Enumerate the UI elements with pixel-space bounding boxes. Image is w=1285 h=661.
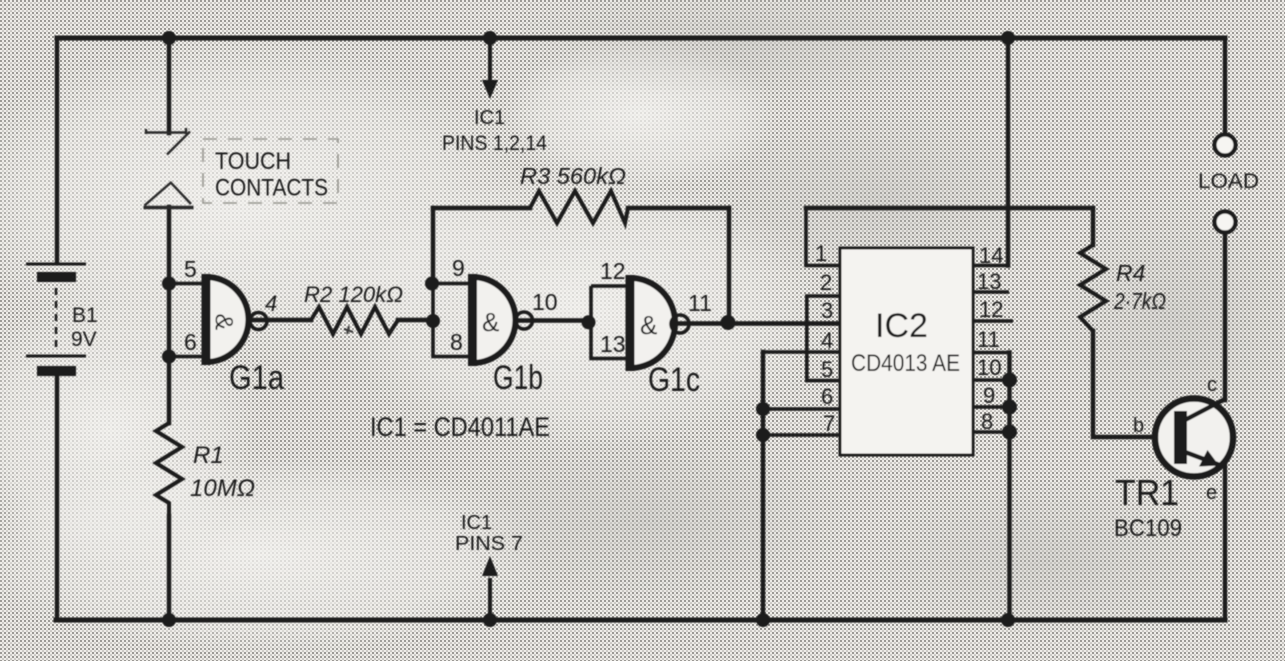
junction IC2 pin 7 / ground bus	[756, 428, 770, 442]
IC2 pin 7 stub	[763, 433, 840, 437]
label B1 9V	[71, 304, 98, 351]
label e	[1206, 482, 1217, 504]
wire load branch to TR1 collector	[1223, 232, 1227, 400]
label TOUCH CONTACTS with dashed box	[203, 139, 338, 203]
svg-text:PINS 7: PINS 7	[455, 533, 523, 555]
svg-text:G1c: G1c	[648, 361, 700, 399]
junction G1b pin 9 / R3	[425, 277, 439, 291]
svg-text:7: 7	[823, 411, 835, 436]
arrow IC1 pin 7 ground	[482, 556, 498, 616]
IC2 pin 9 stub	[973, 405, 1010, 409]
wire top rail to IC2 pin 14	[1006, 38, 1010, 266]
svg-text:R4: R4	[1116, 260, 1145, 286]
wire R4 bottom lead to TR1 base	[1093, 331, 1172, 437]
IC2 pin 4 stub	[763, 350, 840, 354]
terminal LOAD upper	[1215, 135, 1236, 156]
junction IC2 pin 9	[1002, 400, 1017, 415]
svg-text:G1a: G1a	[229, 359, 284, 397]
junction G1c inputs	[582, 315, 596, 329]
label IC2 pin numbers right	[977, 243, 1003, 434]
wire touch-contact branch from top rail	[167, 38, 171, 133]
wire R3 loop right vertical	[727, 208, 731, 322]
svg-text:9: 9	[452, 255, 465, 281]
svg-text:b: b	[1133, 415, 1144, 437]
IC2 pin 10 stub	[973, 378, 1010, 382]
label R4 2.7k	[1113, 260, 1166, 314]
svg-text:IC1 = CD4011AE: IC1 = CD4011AE	[370, 412, 550, 442]
svg-text:10: 10	[977, 355, 1001, 380]
IC2 pin 13 stub	[973, 290, 1009, 294]
battery B1	[26, 264, 86, 376]
label pin 8	[450, 329, 463, 355]
svg-text:CONTACTS: CONTACTS	[215, 175, 328, 202]
label c	[1207, 374, 1217, 396]
wire R3 loop top right segment	[628, 206, 729, 210]
svg-text:c: c	[1207, 374, 1217, 396]
junction ground rail / IC2 pins 8,9,10,11 bus	[1001, 613, 1015, 627]
wire G1b output to G1c input	[514, 318, 591, 322]
NAND gate G1a	[168, 274, 267, 365]
svg-text:BC109: BC109	[1114, 515, 1182, 542]
resistor R2	[311, 307, 398, 334]
transistor TR1	[1155, 399, 1233, 477]
svg-text:4: 4	[265, 291, 277, 316]
wire G1a output to R2	[248, 318, 311, 322]
wire R2 to G1b input node	[398, 318, 433, 322]
svg-text:R3 560kΩ: R3 560kΩ	[520, 163, 626, 189]
svg-text:8: 8	[450, 329, 463, 355]
resistor R1	[156, 423, 182, 516]
IC2 pin 12 stub	[973, 319, 1013, 323]
junction G1a pin 5	[162, 277, 176, 291]
label pin 13	[600, 331, 626, 357]
junction IC2 pin 8	[1002, 425, 1017, 440]
label pin 9	[452, 255, 465, 281]
wire G1c output to IC2 pin 3	[674, 321, 840, 325]
label IC1 PINS 1,2,14	[442, 107, 547, 155]
label TR1	[1115, 472, 1179, 513]
wire R4 top lead	[1091, 208, 1095, 245]
label IC2 pin numbers left	[815, 241, 835, 436]
wire bottom ground rail	[56, 618, 1225, 623]
svg-text:4: 4	[821, 328, 833, 353]
svg-text:9V: 9V	[71, 328, 97, 351]
touch contacts symbol	[144, 128, 194, 208]
svg-text:8: 8	[981, 409, 993, 434]
junction G1a pin 6	[162, 350, 176, 364]
arrow IC1 pins 1,2,14 supply	[482, 44, 498, 99]
svg-text:13: 13	[600, 331, 626, 357]
IC2 pin 8 stub	[973, 430, 1010, 434]
label BC109	[1114, 515, 1182, 542]
svg-text:IC2: IC2	[875, 307, 928, 345]
NAND gate G1c	[591, 275, 689, 371]
svg-text:11: 11	[977, 327, 1000, 352]
svg-text:&: &	[640, 310, 657, 340]
label b	[1133, 415, 1144, 437]
junction node G1c output pin 11 / R3	[721, 315, 736, 330]
IC2 pin 2 to pin 5 bracket	[807, 296, 840, 381]
svg-text:R2 120kΩ: R2 120kΩ	[304, 282, 403, 307]
svg-text:B1: B1	[72, 304, 98, 327]
svg-text:12: 12	[979, 297, 1003, 322]
wire R3 loop top left segment	[433, 206, 530, 210]
svg-text:1: 1	[815, 241, 827, 266]
IC2 pin 1 stub and bracket	[806, 208, 840, 266]
label R1 10M	[190, 442, 255, 502]
svg-text:IC1: IC1	[461, 512, 492, 534]
svg-text:TOUCH: TOUCH	[215, 148, 291, 175]
wire top supply rail	[57, 36, 1225, 41]
label pin 6	[184, 329, 197, 355]
junction G1b pin 8 / R2	[426, 314, 440, 328]
svg-text:&: &	[482, 307, 499, 337]
svg-text:10MΩ: 10MΩ	[190, 475, 255, 502]
wire IC2 ground bus pins 4,6,7	[761, 352, 765, 620]
label IC1 = CD4011AE	[370, 412, 550, 442]
svg-text:6: 6	[821, 384, 833, 409]
printing smudge mark in R2	[344, 326, 353, 334]
svg-text:R1: R1	[193, 442, 224, 469]
label G1b	[493, 359, 543, 397]
svg-text:CD4013 AE: CD4013 AE	[851, 350, 960, 377]
junction ground rail / IC2 pins 4,6,7 bus	[756, 613, 770, 627]
svg-text:14: 14	[979, 243, 1003, 268]
svg-text:TR1: TR1	[1115, 472, 1179, 513]
wire load branch upper	[1223, 38, 1227, 135]
svg-text:PINS 1,2,14: PINS 1,2,14	[442, 132, 547, 155]
resistor R3	[530, 191, 628, 223]
svg-text:9: 9	[983, 383, 995, 408]
wire IC2 pins 8,9,10,11 ground bus	[1007, 353, 1011, 621]
resistor R4	[1080, 245, 1106, 331]
IC2 pin 14 stub	[973, 264, 1008, 268]
terminal LOAD lower	[1215, 212, 1236, 233]
wire IC2 pin1 bracket to R4 (node Q1)	[806, 206, 1093, 210]
label pin 12	[600, 258, 626, 284]
wire R3 feedback loop left vertical	[431, 208, 435, 283]
label G1c	[648, 361, 700, 399]
IC2 pin 11 stub	[973, 351, 1010, 355]
svg-text:IC1: IC1	[474, 107, 505, 129]
junction ground rail / IC1 pin 7 arrow	[483, 613, 497, 627]
svg-text:5: 5	[184, 256, 197, 282]
label pin 11	[688, 290, 712, 316]
svg-text:2: 2	[820, 270, 832, 295]
junction top rail / IC2 pin 14 branch	[1001, 31, 1015, 45]
svg-text:13: 13	[977, 269, 1001, 294]
NAND gate G1b	[433, 274, 533, 366]
svg-text:&: &	[210, 314, 238, 331]
label IC1 PINS 7	[455, 512, 523, 555]
label pin 5	[184, 256, 197, 282]
wire left rail lower (battery -)	[55, 377, 59, 620]
label pin 10	[532, 289, 558, 315]
svg-text:10: 10	[532, 289, 558, 315]
IC2 pin 6 stub	[763, 407, 840, 411]
svg-text:G1b: G1b	[493, 359, 543, 397]
junction ground rail / R1 branch	[162, 613, 176, 627]
svg-text:6: 6	[184, 329, 197, 355]
label R3 560k	[520, 163, 626, 189]
svg-text:12: 12	[600, 258, 626, 284]
label R2 120k	[304, 282, 403, 307]
svg-text:3: 3	[821, 298, 833, 323]
junction top rail / touch-contact branch	[162, 31, 176, 45]
wire touch contact to G1a inputs and R1	[167, 207, 171, 620]
svg-text:LOAD: LOAD	[1198, 170, 1259, 193]
junction top rail / IC1 supply arrow	[483, 31, 497, 45]
svg-text:2·7kΩ: 2·7kΩ	[1113, 288, 1166, 314]
label pin 4	[265, 291, 277, 316]
wire TR1 emitter to ground rail	[1223, 466, 1227, 620]
junction IC2 pin 10	[1002, 373, 1017, 388]
label G1a	[229, 359, 284, 397]
svg-text:11: 11	[688, 290, 712, 316]
IC2 body CD4013AE	[840, 248, 973, 455]
label LOAD	[1198, 170, 1259, 193]
wire left rail upper (battery +)	[55, 38, 59, 262]
svg-text:e: e	[1206, 482, 1217, 504]
svg-text:5: 5	[821, 357, 833, 382]
junction IC2 pin 6 / ground bus	[756, 402, 770, 416]
